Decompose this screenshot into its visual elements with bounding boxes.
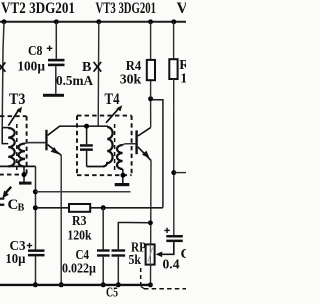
svg-text:100µ: 100µ	[17, 60, 45, 75]
svg-text:0.5mA: 0.5mA	[56, 74, 94, 89]
svg-text:T4: T4	[105, 91, 120, 108]
svg-text:120k: 120k	[67, 229, 91, 244]
svg-text:0.022µ: 0.022µ	[62, 262, 96, 277]
svg-text:B: B	[18, 203, 25, 214]
svg-text:V: V	[177, 0, 187, 17]
svg-text:C5: C5	[106, 286, 118, 301]
svg-text:R3: R3	[72, 214, 87, 229]
svg-text:30k: 30k	[120, 73, 142, 88]
svg-text:C8: C8	[28, 44, 43, 59]
svg-text:B: B	[82, 60, 91, 75]
svg-text:5k: 5k	[129, 253, 142, 268]
svg-text:T3: T3	[9, 91, 26, 108]
svg-text:C: C	[181, 247, 187, 262]
svg-text:1: 1	[180, 71, 186, 86]
svg-text:VT2 3DG201: VT2 3DG201	[1, 0, 75, 17]
svg-text:0.4: 0.4	[163, 258, 180, 273]
svg-text:VT3 3DG201: VT3 3DG201	[96, 0, 157, 17]
svg-text:10µ: 10µ	[5, 252, 25, 267]
